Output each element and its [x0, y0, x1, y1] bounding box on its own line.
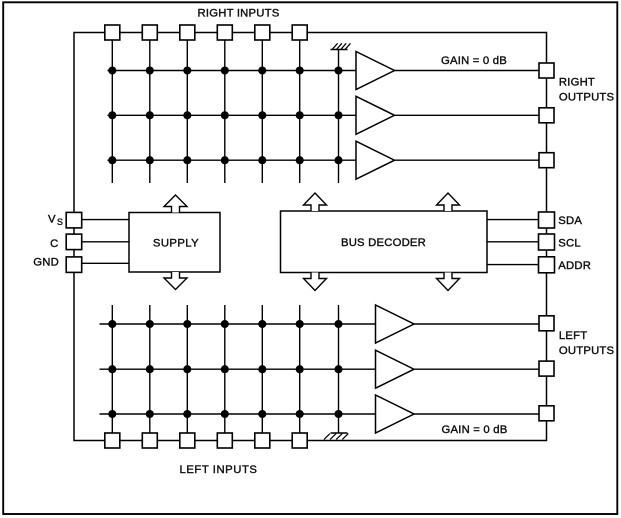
- label: RIGHT OUTPUTS: [559, 77, 615, 104]
- pin: left input 4: [217, 433, 232, 448]
- wire: right matrix row 2: [108, 114, 357, 116]
- svg-text:SCL: SCL: [558, 237, 581, 249]
- wire: left output 1: [414, 323, 539, 325]
- junction: left matrix row 2 col 1: [108, 365, 116, 373]
- junction: right matrix row 2 col 1: [108, 111, 116, 119]
- pin: right input 2: [142, 25, 157, 40]
- junction: left matrix row 3 col 5: [258, 410, 266, 418]
- wire: BUS DECODER to SDA: [487, 219, 539, 221]
- label: LEFT OUTPUTS: [559, 330, 615, 357]
- svg-text:GAIN = 0 dB: GAIN = 0 dB: [441, 55, 507, 67]
- pin: right output 3: [539, 153, 554, 168]
- wire: left input column 5: [261, 305, 263, 433]
- junction: left matrix row 1 col 5: [258, 320, 266, 328]
- op-amp buffer: left output 1: [376, 305, 415, 343]
- junction: right matrix row 3 col 5: [258, 156, 266, 164]
- svg-text:LEFT: LEFT: [559, 330, 587, 342]
- wire: right output 2: [395, 114, 540, 116]
- wire: left input column 6: [299, 305, 301, 433]
- pin: right input 4: [217, 25, 232, 40]
- junction: right matrix row 3 col 7: [334, 156, 342, 164]
- pin: left input 1: [105, 433, 120, 448]
- svg-text:V: V: [48, 214, 56, 226]
- svg-text:LEFT INPUTS: LEFT INPUTS: [179, 464, 257, 476]
- junction: left matrix row 3 col 1: [108, 410, 116, 418]
- SUPPLY block: [129, 213, 220, 273]
- junction: left matrix row 2 col 7: [334, 365, 342, 373]
- wire: right matrix row 1: [108, 70, 357, 72]
- svg-text:OUTPUTS: OUTPUTS: [559, 345, 615, 357]
- pin: right input 5: [255, 25, 270, 40]
- junction: left matrix row 2 col 4: [221, 365, 229, 373]
- pin: GND: [66, 257, 82, 273]
- junction: left matrix row 2 col 5: [258, 365, 266, 373]
- wire: left output 3: [414, 413, 539, 415]
- junction: right matrix row 2 col 6: [296, 111, 304, 119]
- junction: left matrix row 3 col 4: [221, 410, 229, 418]
- chip outline (IC boundary): [74, 33, 547, 441]
- bus decoder arrow (up, left): [304, 193, 327, 211]
- junction: right matrix row 2 col 4: [221, 111, 229, 119]
- svg-text:GAIN = 0 dB: GAIN = 0 dB: [442, 424, 508, 436]
- wire: left matrix row 3: [100, 413, 376, 415]
- junction: left matrix row 1 col 2: [146, 320, 154, 328]
- wire: GND to SUPPLY: [82, 262, 129, 264]
- pin: left output 2: [539, 361, 554, 376]
- wire: right input column 2: [149, 40, 151, 183]
- wire: right input column 5: [261, 40, 263, 183]
- junction: right matrix row 3 col 2: [146, 156, 154, 164]
- pin: left input 2: [142, 433, 157, 448]
- wire: right output 3: [395, 159, 540, 161]
- svg-text:SDA: SDA: [558, 215, 582, 227]
- wire: BUS DECODER to SCL: [487, 241, 539, 243]
- pin: left input 3: [180, 433, 195, 448]
- junction: left matrix row 1 col 7: [334, 320, 342, 328]
- svg-text:C: C: [50, 238, 58, 250]
- pin: right input 6: [292, 25, 307, 40]
- wire: right input column 4: [224, 40, 226, 183]
- junction: right matrix row 3 col 3: [183, 156, 191, 164]
- pin: SDA: [539, 212, 555, 228]
- op-amp buffer: right output 1: [356, 52, 395, 90]
- supply bus arrow (down): [164, 272, 187, 290]
- junction: left matrix row 1 col 3: [183, 320, 191, 328]
- pin: left input 6: [292, 433, 307, 448]
- junction: right matrix row 2 col 3: [183, 111, 191, 119]
- junction: right matrix row 2 col 2: [146, 111, 154, 119]
- junction: right matrix row 1 col 4: [221, 66, 229, 74]
- bus decoder arrow (down, right): [437, 273, 460, 291]
- bus decoder arrow (down, left): [304, 273, 327, 291]
- op-amp buffer: right output 3: [356, 141, 395, 179]
- wire: left input column 2: [149, 305, 151, 433]
- junction: right matrix row 3 col 1: [108, 156, 116, 164]
- junction: left matrix row 2 col 2: [146, 365, 154, 373]
- pin: right output 2: [539, 108, 554, 123]
- junction: left matrix row 3 col 3: [183, 410, 191, 418]
- wire: left matrix ground column: [338, 305, 340, 433]
- wire: right matrix row 3: [108, 159, 357, 161]
- wire: C to SUPPLY: [82, 241, 129, 243]
- wire: BUS DECODER to ADDR: [487, 264, 539, 266]
- junction: left matrix row 3 col 7: [334, 410, 342, 418]
- junction: right matrix row 2 col 5: [258, 111, 266, 119]
- pin: SCL: [539, 234, 555, 250]
- svg-text:SUPPLY: SUPPLY: [153, 237, 199, 249]
- pin: left input 5: [255, 433, 270, 448]
- svg-text:S: S: [57, 217, 63, 227]
- BUS DECODER block: [281, 211, 488, 273]
- junction: left matrix row 2 col 3: [183, 365, 191, 373]
- pin: left output 3: [539, 406, 554, 421]
- op-amp buffer: left output 2: [376, 350, 415, 388]
- svg-text:ADDR: ADDR: [558, 260, 591, 272]
- wire: left input column 3: [186, 305, 188, 433]
- junction: left matrix row 1 col 4: [221, 320, 229, 328]
- wire: VS to SUPPLY: [82, 219, 129, 221]
- wire: left input column 4: [224, 305, 226, 433]
- wire: right input column 6: [299, 40, 301, 183]
- svg-text:RIGHT INPUTS: RIGHT INPUTS: [198, 8, 280, 20]
- pin: VS: [66, 212, 82, 228]
- junction: right matrix row 1 col 3: [183, 66, 191, 74]
- junction: right matrix row 3 col 4: [221, 156, 229, 164]
- bus decoder arrow (up, right): [437, 193, 460, 211]
- junction: right matrix row 1 col 6: [296, 66, 304, 74]
- junction: left matrix row 2 col 6: [296, 365, 304, 373]
- junction: right matrix row 2 col 7: [334, 111, 342, 119]
- wire: left matrix row 1: [100, 323, 376, 325]
- wire: right input column 3: [186, 40, 188, 183]
- pin: left output 1: [539, 316, 554, 331]
- wire: right input column 1: [111, 40, 113, 183]
- ground (right matrix): [331, 43, 351, 49]
- junction: right matrix row 3 col 6: [296, 156, 304, 164]
- wire: left matrix row 2: [100, 368, 376, 370]
- svg-text:RIGHT: RIGHT: [559, 77, 595, 89]
- junction: right matrix row 1 col 2: [146, 66, 154, 74]
- svg-text:OUTPUTS: OUTPUTS: [559, 92, 615, 104]
- ground (left matrix): [324, 433, 348, 439]
- op-amp buffer: left output 3: [376, 395, 415, 433]
- junction: right matrix row 1 col 5: [258, 66, 266, 74]
- label: VS: [48, 214, 63, 228]
- wire: left input column 1: [111, 305, 113, 433]
- pin: right input 3: [180, 25, 195, 40]
- junction: left matrix row 1 col 6: [296, 320, 304, 328]
- svg-text:BUS DECODER: BUS DECODER: [341, 237, 426, 249]
- junction: right matrix row 1 col 1: [108, 66, 116, 74]
- supply bus arrow (up): [164, 195, 187, 213]
- pin: C: [66, 234, 82, 250]
- junction: left matrix row 1 col 1: [108, 320, 116, 328]
- junction: left matrix row 3 col 6: [296, 410, 304, 418]
- pin: right output 1: [539, 63, 554, 78]
- pin: ADDR: [539, 257, 555, 273]
- op-amp buffer: right output 2: [356, 96, 395, 134]
- svg-text:GND: GND: [33, 257, 59, 269]
- junction: left matrix row 3 col 2: [146, 410, 154, 418]
- pin: right input 1: [105, 25, 120, 40]
- wire: right output 1: [395, 70, 540, 72]
- wire: left output 2: [414, 368, 539, 370]
- junction: right matrix row 1 col 7: [334, 66, 342, 74]
- wire: right matrix ground column: [338, 50, 340, 184]
